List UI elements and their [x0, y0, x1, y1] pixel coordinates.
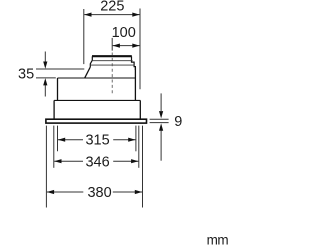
svg-text:mm: mm: [207, 233, 229, 247]
dimension line 346: [54, 160, 138, 162]
extension tick for dim 100 (duct centerline): [111, 38, 113, 51]
arrow 35 down: [44, 52, 46, 63]
arrowhead 346 left: [54, 159, 61, 163]
arrowhead 380 left: [47, 190, 54, 194]
arrowhead 100 left: [113, 44, 120, 48]
arrowhead 315 left: [58, 138, 65, 142]
arrowhead 315 right: [128, 138, 135, 142]
reference line 35 lower: [36, 77, 56, 79]
collar crease line upper: [92, 60, 133, 62]
duct collar right edge: [132, 56, 136, 70]
arrowhead 100 right: [132, 44, 139, 48]
arrow 9 up: [160, 131, 162, 161]
arrowhead 225 left: [84, 13, 91, 17]
dimension line 315: [58, 139, 136, 141]
duct collar top rim: [92, 55, 132, 57]
svg-text:9: 9: [174, 114, 182, 130]
extension line 380 left: [45, 126, 47, 208]
dimension line 100: [113, 45, 140, 47]
dimension line 380: [47, 191, 142, 193]
hood body upper section (315 wide) left vertical: [57, 78, 59, 100]
duct collar left edge: [90, 56, 92, 67]
hood body step line (346 section top): [54, 99, 140, 101]
extension line 380 right: [142, 126, 144, 208]
reference line 35 upper: [36, 68, 84, 70]
svg-text:100: 100: [112, 25, 136, 41]
bottom flange (380 wide): [46, 119, 147, 123]
hood body lower-right vertical: [139, 100, 141, 118]
arrow 9 down: [160, 93, 162, 111]
extension line right of dims 225 and 100: [139, 9, 141, 90]
svg-text:35: 35: [18, 66, 34, 82]
arrowhead 225 right: [132, 13, 139, 17]
svg-text:315: 315: [85, 132, 109, 148]
svg-text:346: 346: [85, 154, 109, 170]
extension line 346 right: [138, 126, 140, 168]
extension line left of dim 225: [83, 9, 85, 64]
svg-text:225: 225: [100, 0, 124, 15]
collar crease line lower: [90, 64, 134, 66]
arrowhead 380 right: [135, 190, 142, 194]
extension line 315 left: [57, 126, 59, 152]
svg-text:380: 380: [87, 185, 111, 201]
duct centerline (dashed): [111, 53, 113, 94]
arrowhead 346 right: [131, 159, 138, 163]
shoulder diagonal left of collar: [85, 67, 91, 78]
hood body right edge (collar side down to step): [134, 68, 136, 101]
extension line 346 left: [53, 126, 55, 168]
reference line 9 lower: [150, 122, 169, 124]
extension line 315 right: [135, 126, 137, 152]
dimension line 225: [84, 14, 139, 16]
reference line 9 upper: [150, 118, 169, 120]
hood body lower-left vertical: [53, 100, 55, 118]
arrow 35 up: [44, 85, 46, 97]
hood body top surface line: [58, 77, 136, 79]
